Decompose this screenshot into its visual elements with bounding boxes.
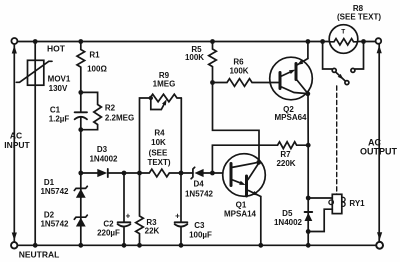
svg-text:1N5742: 1N5742: [40, 220, 69, 229]
terminal AC output bottom: [376, 242, 383, 249]
svg-text:R7: R7: [280, 150, 291, 159]
node Q1 base junction: [210, 171, 215, 176]
svg-text:(SEE: (SEE: [149, 149, 168, 158]
resistor R7: [278, 142, 309, 149]
svg-text:INPUT: INPUT: [4, 140, 30, 150]
diode D5: [305, 212, 313, 221]
node R1/C1/R2 junction: [78, 90, 83, 95]
svg-text:1N5742: 1N5742: [40, 187, 69, 196]
resistor R6: [213, 79, 280, 87]
node Q1 collector dot: [256, 160, 261, 165]
wire D1-D2: [80, 198, 82, 227]
svg-text:1.2µF: 1.2µF: [49, 115, 70, 124]
wire left branch to D3 node: [80, 130, 82, 173]
thermistor R8: [329, 25, 358, 54]
svg-text:220K: 220K: [276, 159, 295, 168]
node Q2 line/neutral junction: [306, 243, 311, 248]
zener D1: [74, 173, 87, 198]
resistor R5: [209, 42, 217, 83]
node R8 left/switch junction: [320, 39, 325, 44]
node R8 right/switch junction: [361, 39, 366, 44]
relay RY1 coil: [308, 194, 345, 231]
wire Q2 emitter vertical: [307, 42, 309, 59]
transistor Q1 MPSA14: [223, 154, 266, 197]
capacitor C1: [75, 92, 87, 129]
svg-text:R2: R2: [105, 104, 116, 113]
terminal AC output top: [376, 38, 382, 44]
resistor R4: [140, 169, 182, 177]
svg-text:+: +: [175, 212, 180, 221]
svg-text:T: T: [341, 29, 345, 36]
svg-text:MPSA64: MPSA64: [274, 113, 307, 122]
svg-text:10K: 10K: [151, 138, 166, 147]
resistor R9 (trimmer): [149, 94, 182, 109]
node C3 top junction: [179, 171, 184, 176]
resistor R3: [136, 173, 144, 245]
svg-text:130V: 130V: [49, 84, 68, 93]
node MOV/neutral junction: [33, 243, 38, 248]
wire D2 to neutral: [80, 226, 82, 245]
node Q1 emitter/neutral junction: [258, 243, 263, 248]
wire Q1 base: [212, 172, 229, 174]
node R3/R9 left junction: [137, 171, 142, 176]
node relay coil top junction: [306, 196, 311, 201]
node C1-R2 bottom junction: [78, 127, 83, 132]
svg-text:1N5742: 1N5742: [185, 190, 214, 199]
zener D4: [181, 167, 212, 178]
wire relay mechanical dashed link: [336, 86, 338, 194]
svg-text:D4: D4: [193, 180, 204, 189]
zener D2: [74, 215, 87, 226]
wire MOV top: [34, 42, 36, 61]
node D3 junction: [78, 171, 83, 176]
node D2/neutral junction: [78, 243, 83, 248]
svg-text:D3: D3: [97, 145, 108, 154]
svg-text:D1: D1: [44, 178, 55, 187]
svg-text:R1: R1: [89, 51, 100, 60]
svg-text:2.2MEG: 2.2MEG: [105, 114, 134, 123]
arrow AC input up: [12, 46, 17, 54]
resistor R1: [77, 42, 85, 93]
svg-text:OUTPUT: OUTPUT: [360, 147, 398, 157]
svg-text:+: +: [126, 212, 131, 221]
svg-text:100K: 100K: [185, 53, 204, 62]
switch RY1 contacts: [323, 42, 364, 85]
node Q2 collector dot: [305, 91, 310, 96]
capacitor C2: [118, 173, 131, 245]
svg-text:MPSA14: MPSA14: [224, 209, 257, 218]
svg-text:1MEG: 1MEG: [153, 79, 176, 88]
node hot/R5 junction: [210, 39, 215, 44]
transistor Q2 MPSA64: [270, 57, 313, 100]
svg-text:22K: 22K: [145, 227, 160, 236]
wire R9 box right vertical: [180, 98, 182, 173]
wire Q1 emitter to neutral: [260, 197, 262, 246]
svg-text:100K: 100K: [229, 67, 248, 76]
arrow AC output down: [377, 232, 382, 240]
node relay coil bottom junction: [306, 229, 311, 234]
terminal AC input top: [11, 38, 17, 44]
node hot/Q2 emitter junction: [306, 39, 311, 44]
wire R7 left leg: [212, 145, 277, 173]
terminal AC input bottom: [11, 242, 17, 248]
diode D3: [81, 169, 124, 177]
wire C2 to R3 node: [124, 172, 140, 174]
node R5/R6 junction: [210, 80, 215, 85]
svg-text:HOT: HOT: [47, 44, 66, 54]
svg-text:D5: D5: [282, 209, 293, 218]
capacitor C3: [175, 173, 188, 245]
node C3/neutral junction: [179, 243, 184, 248]
svg-text:NEUTRAL: NEUTRAL: [19, 250, 60, 260]
svg-text:C2: C2: [103, 220, 114, 229]
node hot/R1 junction: [78, 39, 83, 44]
wire R9 box left vertical: [140, 98, 151, 173]
node R7/Q2 collector line junction: [306, 143, 311, 148]
svg-text:Q1: Q1: [236, 201, 247, 210]
wire top rail right of R8: [358, 41, 376, 43]
svg-text:C1: C1: [50, 106, 61, 115]
varistor MOV1: [16, 60, 52, 85]
node C2/neutral junction: [122, 243, 127, 248]
svg-text:1N4002: 1N4002: [89, 155, 118, 164]
svg-text:R6: R6: [233, 58, 244, 67]
svg-text:RY1: RY1: [349, 199, 365, 208]
wire bottom rail (neutral): [18, 244, 377, 246]
svg-text:AC: AC: [10, 131, 22, 141]
svg-text:100µF: 100µF: [189, 231, 212, 240]
arrow AC output up: [377, 45, 382, 53]
svg-text:C3: C3: [194, 221, 205, 230]
svg-text:R3: R3: [146, 218, 157, 227]
resistor R2 parallel bracket: [81, 92, 102, 129]
node R3/neutral junction: [137, 243, 142, 248]
node hot/MOV junction: [33, 39, 38, 44]
svg-text:220µF: 220µF: [97, 229, 120, 238]
svg-text:1N4002: 1N4002: [274, 218, 303, 227]
svg-text:R4: R4: [154, 129, 165, 138]
svg-text:100Ω: 100Ω: [87, 64, 107, 73]
wire top rail (hot): [18, 41, 330, 43]
wire AC output vertical: [378, 44, 380, 241]
wire R5R6 node to Q1 collector: [213, 83, 260, 162]
arrow AC input down: [12, 233, 17, 241]
node C2 top junction: [122, 171, 127, 176]
wire MOV bottom: [34, 85, 36, 245]
svg-text:(SEE TEXT): (SEE TEXT): [337, 13, 381, 22]
svg-text:TEXT): TEXT): [147, 158, 170, 167]
svg-text:D2: D2: [44, 211, 55, 220]
svg-text:MOV1: MOV1: [48, 75, 71, 84]
wire Q2 collector line down: [307, 94, 309, 246]
wire AC input vertical: [13, 44, 15, 242]
